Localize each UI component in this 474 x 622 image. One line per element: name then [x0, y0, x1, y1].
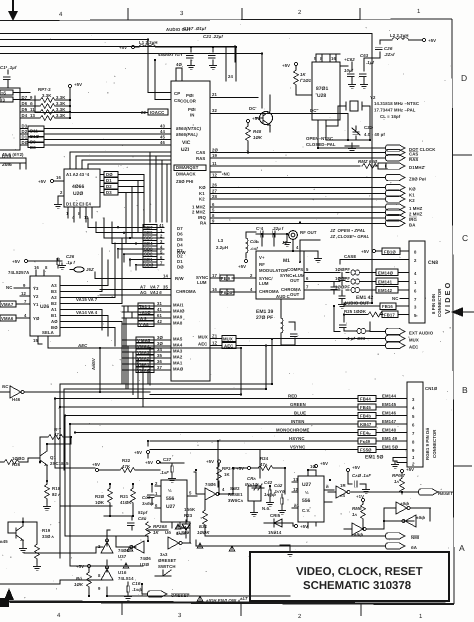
svg-text:KØ: KØ	[409, 187, 416, 192]
wire AUDIO OUT row	[344, 301, 409, 310]
svg-text:D3: D3	[106, 190, 112, 195]
svg-text:+5V: +5V	[252, 116, 260, 121]
wire NMI flag	[205, 530, 419, 540]
resistor RM8 1K	[352, 494, 365, 529]
svg-text:CASE: CASE	[344, 254, 356, 259]
svg-text:10µf: 10µf	[344, 68, 354, 73]
pin numbers 43-46	[160, 124, 165, 146]
svg-text:EM1 5Ø: EM1 5Ø	[365, 455, 383, 461]
svg-text:1K: 1K	[153, 530, 159, 535]
svg-text:1ʌ: 1ʌ	[394, 479, 399, 484]
inverter U16 74LS14	[98, 566, 290, 596]
wire bundle TA wrap-down	[124, 306, 132, 389]
svg-text:D1: D1	[106, 178, 112, 183]
crystal value text	[374, 101, 419, 119]
svg-text:D4: D4	[22, 113, 28, 118]
svg-text:RED: RED	[288, 394, 297, 399]
svg-text:EM147: EM147	[382, 419, 397, 424]
svg-text:б: б	[30, 101, 33, 106]
svg-text:32: 32	[212, 108, 217, 113]
svg-text:⅓: ⅓	[168, 488, 172, 493]
svg-text:D5: D5	[177, 237, 183, 242]
svg-text:74Ø6: 74Ø6	[205, 482, 216, 487]
wire K0	[210, 183, 416, 192]
wire band A wrap 1	[60, 338, 273, 558]
svg-text:U1б: U1б	[118, 570, 127, 575]
wire COMP/LUM row EM140	[304, 267, 409, 285]
resistor R17 47K	[40, 427, 71, 455]
svg-text:CHROMA: CHROMA	[176, 289, 196, 294]
capacitor C62	[340, 57, 355, 88]
svg-text:34: 34	[157, 347, 162, 352]
svg-text:13: 13	[293, 477, 298, 482]
wire PHI IN	[210, 108, 348, 140]
svg-text:MA2: MA2	[173, 355, 183, 360]
svg-text:SCHEMATIC 310378: SCHEMATIC 310378	[303, 580, 411, 592]
ground 8701	[345, 143, 359, 152]
IC U20 4066	[64, 169, 100, 207]
svg-text:8564(NTSC): 8564(NTSC)	[176, 126, 202, 131]
svg-text:12: 12	[21, 291, 26, 296]
svg-text:R22: R22	[122, 458, 131, 463]
svg-text:L2 2.2µH: L2 2.2µH	[390, 33, 409, 38]
wire VMA1 row	[122, 359, 171, 367]
capacitor left edge	[0, 65, 17, 88]
wire band A wrap 3	[150, 347, 242, 395]
svg-text:BA: BA	[409, 222, 415, 227]
svg-text:ʌIGH ЕNД ONLʌ: ʌIGH ЕNД ONLʌ	[205, 598, 241, 603]
svg-text:EM141: EM141	[378, 280, 393, 285]
svg-text:42: 42	[157, 319, 162, 324]
resistor pack RP7-2 3.3K	[38, 87, 70, 120]
svg-text:16: 16	[56, 175, 61, 180]
wire CASE	[340, 254, 409, 264]
svg-text:RAS: RAS	[196, 156, 205, 161]
svg-text:+5V: +5V	[12, 259, 20, 264]
svg-text:D2: D2	[177, 254, 183, 259]
svg-text:JZ ,CLOSE¹• GPAL: JZ ,CLOSE¹• GPAL	[330, 234, 369, 239]
svg-text:24: 24	[228, 74, 233, 79]
svg-text:35: 35	[163, 285, 168, 290]
svg-text:8566(PAL): 8566(PAL)	[176, 132, 198, 137]
wire IOACC pin22	[35, 96, 168, 115]
bead EM139 270PF	[256, 299, 297, 345]
wire VMA2 row	[122, 353, 171, 361]
svg-text:N.б.: N.б.	[262, 506, 271, 511]
ground modulator case	[304, 251, 321, 262]
wire VMA3 row	[122, 347, 171, 355]
svg-text:ØRESET: ØRESET	[158, 558, 177, 563]
svg-text:D1: D1	[177, 259, 183, 264]
capacitor C93	[340, 315, 370, 342]
svg-text:RPб-7: RPб-7	[392, 473, 405, 478]
svg-text:R25 1ØØK: R25 1ØØK	[344, 309, 367, 314]
svg-text:KB47: KB47	[360, 422, 372, 427]
wire CAS	[210, 148, 418, 157]
svg-text:VMA3: VMA3	[137, 350, 150, 355]
resistor RP2-7 1K pullup	[392, 467, 414, 494]
svg-text:SD2: SD2	[144, 252, 153, 257]
svg-text:L1 2.2µH: L1 2.2µH	[139, 40, 158, 45]
svg-text:U27: U27	[302, 482, 311, 488]
svg-text:61: 61	[157, 313, 162, 318]
svg-text:FB17: FB17	[384, 313, 395, 318]
wire R/W	[95, 272, 171, 279]
svg-text:1ØØPF: 1ØØPF	[335, 285, 350, 290]
svg-text:ʌLT: ʌLT	[239, 596, 248, 601]
svg-text:556: 556	[166, 496, 175, 502]
svg-text:+A1Ø: +A1Ø	[139, 310, 151, 315]
svg-text:бA: бA	[411, 545, 417, 550]
svg-text:12: 12	[293, 487, 298, 492]
node +5V L2	[422, 38, 436, 43]
U19 pin stubs D7-D0	[20, 100, 40, 145]
svg-text:+5V: +5V	[38, 179, 46, 184]
svg-text:.2Zʌf: .2Zʌf	[384, 52, 395, 57]
svg-text:3.3K: 3.3K	[42, 93, 52, 98]
wire RAS	[210, 153, 418, 162]
svg-text:4Ø66: 4Ø66	[72, 184, 84, 190]
wire bundle VMA wrap-down	[122, 340, 150, 407]
switch SW2 RESET	[228, 486, 261, 516]
node +5V mid	[145, 460, 161, 465]
ground U27b	[280, 545, 293, 556]
wire bundle U20 to VIC column	[70, 152, 171, 222]
svg-text:Fє49: Fє49	[360, 439, 371, 444]
svg-text:RESE1: RESE1	[228, 492, 243, 497]
svg-text:+1V: +1V	[356, 494, 364, 499]
svg-text:JʌYб: JʌYб	[274, 489, 285, 494]
svg-text:SD6: SD6	[144, 230, 153, 235]
wire audio out	[0, 34, 372, 304]
svg-text:D3: D3	[177, 248, 183, 253]
wire AEC flag	[210, 341, 418, 350]
svg-text:MUX: MUX	[198, 335, 208, 340]
svg-text:C117 .Ø1µf: C117 .Ø1µf	[183, 26, 206, 31]
svg-text:13: 13	[30, 113, 35, 118]
svg-text:MA9: MA9	[173, 315, 183, 320]
svg-text:CONNECTOR: CONNECTOR	[432, 429, 437, 458]
svg-text:47ʌ: 47ʌ	[260, 462, 268, 467]
svg-text:C1¹ .1µf: C1¹ .1µf	[0, 65, 17, 70]
inductor L3 2.2uH	[216, 232, 259, 269]
svg-text:BLUE: BLUE	[294, 411, 306, 416]
svg-text:CN1Ø: CN1Ø	[425, 386, 438, 391]
svg-text:1ØK: 1ØK	[253, 135, 263, 140]
svg-text:74LS257A: 74LS257A	[8, 270, 29, 275]
svg-text:MA8: MA8	[173, 321, 183, 326]
svg-text:1ØØPF: 1ØØPF	[335, 267, 350, 272]
svg-text:1ØØPF: 1ØØPF	[335, 276, 350, 281]
svg-text:2.2µH: 2.2µH	[216, 245, 228, 250]
resistor RP2-5 1K	[206, 459, 235, 494]
svg-text:87Ø1: 87Ø1	[316, 86, 328, 92]
svg-text:VA14: VA14	[76, 310, 87, 315]
svg-text:Y2: Y2	[33, 294, 39, 299]
svg-text:+5V: +5V	[406, 467, 414, 472]
transistor Q1 2SC1815	[28, 444, 69, 480]
svg-text:DC″: DC″	[310, 108, 319, 113]
wire U20 bottom stubs	[66, 207, 92, 222]
ground U20	[55, 190, 64, 208]
title box	[250, 552, 449, 601]
svg-text:U37: U37	[118, 554, 127, 559]
svg-text:NMІ: NMІ	[411, 535, 419, 540]
svg-text:16: 16	[331, 56, 336, 61]
capacitor C90 .1uf	[346, 465, 371, 493]
note HIGH END ONLY	[197, 596, 241, 603]
svg-text:VMA7: VMA7	[1, 302, 14, 307]
svg-text:⅓: ⅓	[305, 490, 309, 495]
svg-text:.1µ f: .1µ f	[66, 260, 75, 265]
capacitor C92	[274, 483, 285, 514]
node +5V R22	[92, 462, 160, 472]
wire CP CS	[148, 60, 171, 100]
svg-text:3.3K: 3.3K	[56, 107, 66, 112]
svg-text:RA: RA	[200, 221, 206, 226]
wire U16 input row	[0, 580, 103, 584]
svg-text:COLOR: COLOR	[180, 99, 197, 104]
svg-text:AйSV: AйSV	[91, 358, 96, 370]
svg-text:R48: R48	[253, 129, 262, 134]
transistor Q2	[249, 95, 273, 132]
svg-text:AUD C: AUD C	[276, 294, 290, 299]
svg-text:26: 26	[212, 183, 217, 188]
diode CRI5 1N914	[264, 513, 308, 535]
svg-text:47K: 47K	[122, 464, 131, 469]
svg-text:ʌ4: ʌ4	[340, 493, 345, 498]
svg-text:D5: D5	[22, 107, 28, 112]
svg-text:A: A	[459, 543, 465, 553]
wire U26 left pins	[0, 283, 30, 321]
wire BA	[210, 218, 415, 227]
svg-text:Z8Ø PHI: Z8Ø PHI	[176, 179, 193, 184]
diode CRM 1N5R	[176, 520, 190, 538]
capacitor C42	[264, 480, 276, 506]
wire mid risers	[116, 468, 247, 543]
svg-text:R21: R21	[120, 494, 129, 499]
svg-text:+5V: +5V	[74, 82, 82, 87]
connector CN10	[407, 382, 438, 467]
svg-text:C1б: C1б	[132, 581, 141, 586]
svg-text:+5V: +5V	[428, 38, 436, 43]
svg-text:17.73447 MHz –PAL: 17.73447 MHz –PAL	[374, 108, 416, 113]
svg-text:H46: H46	[12, 397, 21, 402]
svg-text:SELA: SELA	[42, 330, 54, 335]
svg-text:46: 46	[160, 140, 165, 145]
svg-text:37: 37	[157, 365, 162, 370]
svg-text:A1: A1	[51, 307, 57, 312]
svg-text:+C62: +C62	[344, 57, 355, 62]
pin number labels U19	[30, 95, 35, 118]
svg-text:1ʌ: 1ʌ	[352, 512, 357, 517]
svg-text:SW2: SW2	[230, 486, 240, 491]
svg-text:19: 19	[212, 153, 217, 158]
svg-text:21: 21	[212, 92, 217, 97]
wire MONOCHROME row FB48 EM148	[75, 428, 407, 436]
svg-text:R18: R18	[52, 486, 61, 491]
svg-text:3WбCʌ: 3WбCʌ	[228, 498, 244, 503]
svg-text:+5V: +5V	[236, 466, 244, 471]
svg-text:EM1 5Ø: EM1 5Ø	[382, 445, 399, 450]
svg-text:D1: D1	[22, 135, 28, 140]
svg-text:SD3: SD3	[144, 246, 153, 251]
svg-text:.22µ f: .22µ f	[272, 226, 284, 231]
wire VMA4 row	[122, 341, 171, 349]
svg-text:2: 2	[411, 462, 415, 467]
inverter 7406 mid	[197, 440, 234, 500]
svg-text:RGB1 9 PIN Dй: RGB1 9 PIN Dй	[425, 428, 430, 460]
svg-text:D2: D2	[106, 184, 112, 189]
wire U20 outputs B1-B4	[100, 172, 144, 244]
wire bottom-left verticals	[8, 444, 143, 566]
svg-text:CAS: CAS	[196, 150, 205, 155]
svg-text:41: 41	[157, 307, 162, 312]
svg-text:27Ø PF: 27Ø PF	[256, 315, 273, 321]
capacitor C27	[160, 457, 184, 482]
svg-text:CAS: CAS	[409, 152, 418, 157]
svg-text:1ØK: 1ØK	[74, 582, 84, 587]
svg-text:INTEN: INTEN	[291, 419, 304, 424]
svg-text:OPEN–NTSC: OPEN–NTSC	[306, 136, 333, 141]
svg-text:(3: (3	[1, 97, 6, 102]
wire HSYNC row FB49 EM149	[150, 436, 407, 487]
inductor L1 2.2uH	[135, 40, 237, 47]
svg-text:RMб: RMб	[352, 506, 362, 511]
svg-text:IOACC: IOACC	[150, 110, 164, 115]
node N.B.	[262, 476, 285, 511]
resistor R101 1K	[294, 66, 312, 96]
svg-text:45.б (бY2): 45.б (бY2)	[2, 152, 24, 157]
connector RF OUT	[282, 230, 317, 251]
svg-text:Q1: Q1	[50, 455, 56, 460]
warning triangles mid	[123, 524, 235, 568]
IC U28 8701	[312, 54, 340, 120]
svg-text:44: 44	[160, 129, 165, 134]
wire 2MHZ	[210, 207, 423, 216]
svg-text:VIDEO, CLOCK, RESET: VIDEO, CLOCK, RESET	[296, 566, 423, 578]
wire U26 SELA bottom	[33, 336, 241, 385]
node +5V U27b	[314, 461, 328, 468]
wire MA9 row	[122, 313, 171, 321]
svg-text:1K: 1K	[224, 472, 230, 477]
svg-text:+5V: +5V	[282, 63, 290, 68]
svg-text:17: 17	[212, 273, 217, 278]
svg-text:+5V: +5V	[361, 249, 369, 254]
crystal Y2	[340, 95, 376, 140]
svg-text:C27: C27	[163, 457, 172, 462]
svg-text:MA5: MA5	[173, 337, 183, 342]
inverter U30b	[344, 521, 384, 537]
svg-text:28: 28	[212, 194, 217, 199]
svg-text:K2: K2	[409, 198, 415, 203]
svg-text:FB44: FB44	[360, 397, 371, 402]
svg-text:27: 27	[212, 188, 217, 193]
svg-text:SD1: SD1	[144, 257, 153, 262]
wire top row 4 (DC)	[0, 54, 262, 109]
wire MA11 row	[122, 301, 171, 309]
svg-text:R23: R23	[184, 513, 193, 518]
svg-text:D3: D3	[22, 124, 28, 129]
svg-text:2Ø: 2Ø	[212, 148, 218, 153]
svg-text:U2Ø: U2Ø	[73, 191, 83, 197]
svg-text:D4: D4	[177, 243, 183, 248]
svg-text:FB45: FB45	[360, 405, 371, 410]
svg-text:HSYNC: HSYNC	[289, 436, 305, 441]
inverter U30 7406 left	[116, 536, 151, 567]
svg-text:й1: й1	[294, 503, 300, 508]
capacitor C63	[360, 53, 375, 88]
svg-text:C21 .22µf: C21 .22µf	[203, 34, 223, 39]
svg-text:VSYNC: VSYNC	[290, 445, 305, 450]
svg-text:A7: A7	[140, 285, 146, 290]
trimmer C20	[326, 106, 385, 140]
svg-text:A 9: A 9	[139, 316, 147, 321]
wire +5V FB10 into CN8 pin8	[361, 248, 409, 255]
capacitor C26 .1uf	[12, 254, 75, 269]
svg-text:M1: M1	[283, 258, 290, 264]
svg-text:45: 45	[160, 135, 165, 140]
svg-text:NC: NC	[6, 285, 12, 290]
resistor R18 82	[44, 480, 61, 510]
svg-text:+5V: +5V	[92, 462, 100, 467]
svg-text:RMZ 68Ø: RMZ 68Ø	[358, 159, 378, 164]
svg-text:1R: 1R	[340, 483, 346, 488]
wire 1MHZ	[210, 202, 423, 211]
node +5V RP7	[68, 82, 82, 88]
svg-text:3.3K: 3.3K	[56, 113, 66, 118]
svg-text:RF OUT: RF OUT	[300, 230, 317, 235]
svg-text:CLOSED–PAL: CLOSED–PAL	[306, 142, 336, 147]
svg-text:VA 7: VA 7	[150, 285, 160, 290]
wire VMA0 row	[122, 365, 171, 373]
svg-text:+5V: +5V	[300, 524, 308, 529]
wire MA10 row	[122, 307, 171, 315]
svg-text:43: 43	[160, 124, 165, 129]
svg-text:ORESET: ORESET	[171, 593, 190, 598]
svg-text:MAI1: MAI1	[173, 303, 184, 308]
svg-text:L3: L3	[218, 238, 224, 243]
wire EXT AUDIO flag	[334, 306, 434, 336]
wire R48 junction vertical	[299, 240, 320, 263]
svg-text:•NC: •NC	[222, 172, 230, 177]
wire SYNC LUM to modulator	[210, 273, 256, 281]
wire MA8 row	[122, 319, 171, 327]
svg-text:3ʌ3: 3ʌ3	[160, 552, 168, 557]
svg-text:EM146: EM146	[382, 411, 397, 416]
svg-text:CRІ5: CRІ5	[270, 513, 281, 518]
svg-text:.1µf: .1µf	[366, 60, 374, 65]
resistor R20 10K	[95, 484, 112, 516]
svg-text:D6: D6	[177, 232, 183, 237]
svg-text:1ØØK: 1ØØK	[197, 530, 210, 535]
svg-text:82 ʌ: 82 ʌ	[52, 492, 61, 497]
svg-text:VA 4: VA 4	[88, 310, 98, 315]
svg-text:TA1 1: TA1 1	[139, 304, 151, 309]
svg-text:ʌбф: ʌбф	[399, 501, 409, 506]
switch SW3 DRESET	[155, 552, 177, 576]
wire top row 3	[0, 47, 235, 63]
resistor RP2-8 1K	[146, 522, 168, 542]
svg-text:Ѓ1Ø1: Ѓ1Ø1	[300, 78, 312, 83]
svg-text:A1 A2 43 ¹4: A1 A2 43 ¹4	[66, 172, 90, 177]
svg-text:FE 9: FE 9	[221, 276, 231, 281]
svg-text:1K: 1K	[300, 72, 306, 77]
node +5V 7406	[134, 450, 150, 458]
svg-text:4.0 - 40 pf: 4.0 - 40 pf	[364, 132, 385, 137]
IC U27 556 second half	[292, 464, 334, 528]
svg-text:J2: J2	[282, 240, 287, 245]
